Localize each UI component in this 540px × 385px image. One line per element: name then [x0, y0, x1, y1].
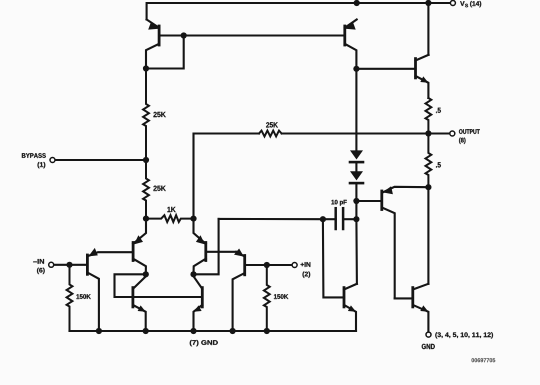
node Q8 collector dot [353, 66, 359, 72]
node BYPASS dot [143, 157, 149, 163]
capacitor C1 10 pF [323, 208, 357, 229]
terminal BYPASS (1) [50, 158, 55, 163]
transistor Q12 (bottom output NPN) [395, 284, 429, 332]
node Q3/Q5 collector dot [143, 271, 149, 277]
node rail dot 150K [264, 328, 270, 334]
wire mirror base tie (U-link) [115, 274, 203, 297]
wire Q7 base to collector tie [146, 36, 184, 69]
node cap left dot [320, 216, 326, 222]
node output junction dot [425, 130, 431, 136]
transistor Q1 (-IN PNP follower) [87, 248, 133, 331]
resistor R2 25K (upper left) [143, 69, 149, 161]
wire BYPASS to node [56, 159, 146, 161]
node Q4/Q6 collector dot [190, 271, 196, 277]
wire ground rail [70, 330, 357, 332]
wire Q8 collector to Q11 base [356, 68, 415, 70]
transistor Q2 (+IN PNP follower) [233, 249, 292, 332]
transistor Q10 (PNP driver) [382, 186, 429, 298]
node 1K left dot [143, 216, 149, 222]
node rail dot Q5 emitter [143, 328, 149, 334]
node Vs rail junction dot [425, 0, 431, 6]
transistor Q3 (inner left PNP) [133, 219, 146, 275]
wire feedback to output [282, 132, 429, 134]
node 1K right dot [190, 216, 196, 222]
wire D1-D2 [355, 163, 357, 171]
wire mirror output column [355, 69, 357, 151]
wire mirror base bus [159, 34, 345, 36]
terminal -IN (6) [49, 262, 54, 267]
node +IN dot [264, 262, 270, 268]
node R8 / Q10 emitter / Q12 collector dot [425, 184, 431, 190]
transistor Q6 (right NPN mirror) [194, 276, 203, 331]
node Q7 base dot [181, 32, 187, 38]
wire to Q10 base [356, 200, 381, 202]
resistor R7 .5 (top) [426, 98, 432, 134]
wire top supply rail [147, 3, 453, 20]
node rail dot Q6 emitter [190, 328, 196, 334]
wire -IN to node [54, 264, 87, 266]
node rail dot Q2 collector [230, 328, 236, 334]
terminal GND (3,4,5,10,11,12) [426, 332, 431, 337]
wire feedback riser [194, 134, 260, 219]
wire output stub [428, 132, 449, 134]
diode D2 [350, 171, 363, 183]
wire down to Q12 collector [427, 187, 429, 284]
wire comp line to second stage [219, 218, 323, 220]
resistor R5 150K (+IN) [264, 265, 270, 331]
label (7) GND [190, 340, 218, 346]
node -IN dot [66, 262, 72, 268]
wire comp branch down to Q4 collector [194, 219, 219, 274]
wire mirror column to Q9 collector [355, 219, 358, 284]
transistor Q5 (left NPN mirror) [133, 276, 146, 331]
wire Q10 base node down to comp node [355, 201, 357, 219]
diode D1 [350, 150, 363, 162]
node Q7 collector dot [143, 65, 149, 71]
node rail dot Q1 collector [96, 328, 102, 334]
terminal OUTPUT (8) [450, 131, 455, 136]
resistor R3 25K (lower left) [143, 160, 149, 219]
transistor Q7 (top-left PNP, diode-connected mirror) [146, 20, 159, 69]
transistor Q4 (inner right PNP) [194, 219, 237, 275]
wire cap-left down to Q9 base [323, 219, 344, 297]
wire Vs branch down to Q11 collector [427, 3, 429, 55]
transistor Q11 (top output NPN) [416, 55, 429, 98]
label document number [472, 358, 496, 362]
resistor R4 1K [146, 215, 194, 222]
terminal Vs (14) [450, 1, 455, 6]
node Q8 emitter rail dot [354, 0, 360, 6]
resistor R6 25K (feedback) [259, 131, 282, 137]
resistor R1 150K (-IN) [67, 265, 73, 331]
resistor R8 .5 (bottom) [426, 134, 432, 188]
transistor Q9 (second stage NPN) [344, 284, 357, 331]
node comp cap right dot [353, 216, 359, 222]
transistor Q8 (top-right PNP mirror) [345, 20, 357, 69]
node Q10 base dot [353, 198, 359, 204]
terminal +IN (2) [292, 263, 297, 268]
wire D2 to Q10 base node [355, 184, 357, 201]
